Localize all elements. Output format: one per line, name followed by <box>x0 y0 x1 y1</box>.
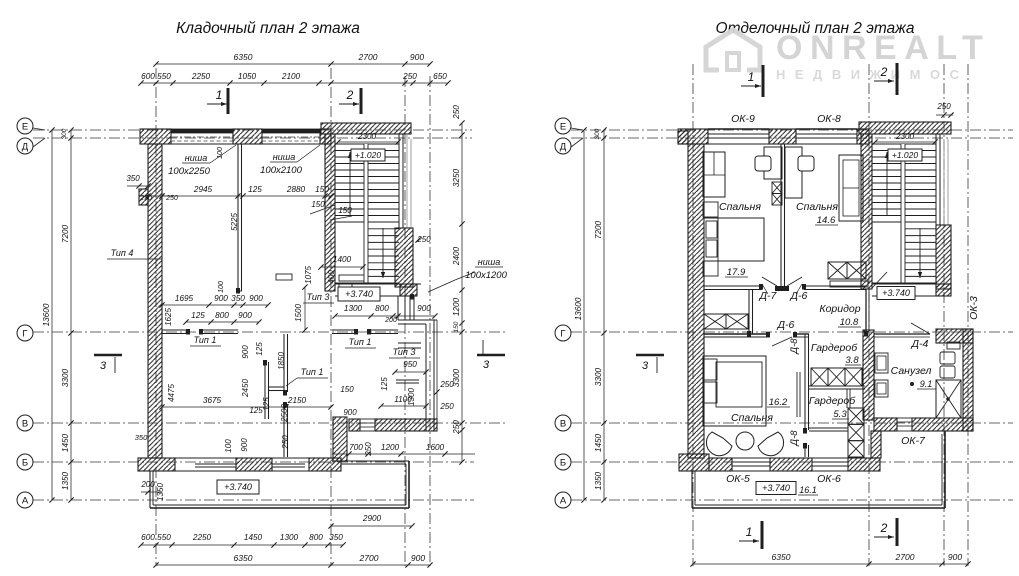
svg-text:2250: 2250 <box>192 533 212 542</box>
svg-text:ОК-3: ОК-3 <box>968 296 980 320</box>
svg-text:ONREALT: ONREALT <box>776 29 990 67</box>
svg-text:2900: 2900 <box>362 514 382 523</box>
svg-text:300: 300 <box>61 128 68 139</box>
svg-text:250: 250 <box>452 105 461 120</box>
svg-text:Гардероб: Гардероб <box>811 342 858 354</box>
svg-text:А: А <box>560 495 567 506</box>
svg-text:3: 3 <box>483 359 490 371</box>
svg-text:900: 900 <box>410 52 424 62</box>
svg-text:2700: 2700 <box>359 553 379 563</box>
svg-text:200: 200 <box>384 317 397 324</box>
svg-text:Д-6: Д-6 <box>777 319 795 331</box>
svg-text:+3.740: +3.740 <box>224 482 252 492</box>
svg-text:ниша: ниша <box>478 257 500 267</box>
svg-text:2700: 2700 <box>358 52 378 62</box>
svg-text:100х2100: 100х2100 <box>260 165 302 176</box>
svg-text:1500: 1500 <box>294 304 303 322</box>
svg-text:2400: 2400 <box>452 246 461 266</box>
svg-text:10.8: 10.8 <box>840 317 859 328</box>
svg-text:4475: 4475 <box>167 384 176 402</box>
svg-text:1050: 1050 <box>238 72 257 81</box>
svg-text:14.6: 14.6 <box>817 215 836 226</box>
svg-text:Е: Е <box>560 121 566 132</box>
svg-text:9.1: 9.1 <box>920 379 933 389</box>
svg-text:6350: 6350 <box>772 552 791 562</box>
svg-text:3: 3 <box>642 360 649 372</box>
svg-text:Д: Д <box>22 141 29 152</box>
svg-text:250: 250 <box>936 102 951 111</box>
svg-text:2150: 2150 <box>287 396 307 405</box>
svg-text:2700: 2700 <box>895 552 915 562</box>
svg-text:100: 100 <box>224 439 233 453</box>
svg-text:5.3: 5.3 <box>833 409 847 420</box>
svg-text:Д-8: Д-8 <box>789 430 800 447</box>
svg-text:16.1: 16.1 <box>799 485 817 495</box>
svg-text:1: 1 <box>748 70 755 84</box>
svg-text:700: 700 <box>349 443 363 452</box>
svg-text:1300: 1300 <box>407 388 416 406</box>
svg-text:В: В <box>22 418 28 429</box>
svg-text:Тип 1: Тип 1 <box>349 337 372 347</box>
svg-text:900: 900 <box>241 345 250 359</box>
svg-text:7200: 7200 <box>61 224 70 243</box>
svg-text:2450: 2450 <box>241 379 250 398</box>
svg-text:Спальня: Спальня <box>719 201 761 213</box>
svg-text:6350: 6350 <box>234 52 253 62</box>
svg-text:Б: Б <box>22 457 28 468</box>
svg-text:550: 550 <box>157 72 171 81</box>
svg-text:900: 900 <box>417 304 431 313</box>
svg-text:Д-7: Д-7 <box>759 290 778 302</box>
svg-text:Коридор: Коридор <box>819 303 860 315</box>
svg-text:800: 800 <box>309 533 323 542</box>
svg-text:250: 250 <box>402 72 417 81</box>
svg-text:ОК-7: ОК-7 <box>901 435 926 447</box>
svg-text:150: 150 <box>311 200 325 209</box>
svg-text:1300: 1300 <box>280 533 299 542</box>
svg-text:800: 800 <box>375 304 389 313</box>
svg-text:Тип 3: Тип 3 <box>307 292 330 302</box>
svg-text:125: 125 <box>380 377 389 391</box>
svg-text:17.9: 17.9 <box>727 267 746 278</box>
svg-text:250: 250 <box>281 435 290 450</box>
svg-text:100: 100 <box>218 281 225 293</box>
svg-text:1450: 1450 <box>594 433 603 452</box>
svg-text:5225: 5225 <box>230 213 239 231</box>
svg-text:ниша: ниша <box>273 152 295 162</box>
svg-text:1350: 1350 <box>61 471 70 490</box>
svg-text:100х1200: 100х1200 <box>465 270 507 281</box>
svg-text:350: 350 <box>135 433 148 442</box>
svg-text:Гардероб: Гардероб <box>809 395 856 407</box>
svg-text:+1.020: +1.020 <box>892 150 919 160</box>
svg-text:Тип 3: Тип 3 <box>393 347 416 357</box>
svg-text:Санузел: Санузел <box>891 365 932 377</box>
svg-text:1300: 1300 <box>344 304 363 313</box>
svg-text:900: 900 <box>238 311 252 320</box>
svg-text:3300: 3300 <box>61 368 70 387</box>
svg-text:950: 950 <box>403 360 417 369</box>
svg-text:250: 250 <box>364 442 373 457</box>
svg-text:1350: 1350 <box>156 483 165 501</box>
svg-text:400: 400 <box>327 270 336 284</box>
svg-text:+3.740: +3.740 <box>882 288 910 298</box>
svg-text:16.2: 16.2 <box>769 397 788 408</box>
svg-text:6350: 6350 <box>234 553 253 563</box>
svg-text:250: 250 <box>452 420 461 435</box>
svg-text:1450: 1450 <box>61 433 70 452</box>
svg-text:250: 250 <box>439 402 454 411</box>
svg-text:Д-8: Д-8 <box>789 338 800 355</box>
svg-text:Тип 4: Тип 4 <box>111 248 134 258</box>
svg-text:900: 900 <box>948 552 962 562</box>
svg-text:3.8: 3.8 <box>845 355 859 366</box>
svg-text:250: 250 <box>439 380 454 389</box>
svg-text:Г: Г <box>22 328 27 339</box>
svg-text:+3.740: +3.740 <box>762 483 790 493</box>
svg-text:125: 125 <box>262 397 271 411</box>
svg-text:1200: 1200 <box>381 443 400 452</box>
svg-text:125: 125 <box>248 185 262 194</box>
svg-text:Д-4: Д-4 <box>911 338 929 350</box>
svg-text:2945: 2945 <box>193 185 213 194</box>
svg-text:3300: 3300 <box>594 367 603 386</box>
svg-text:ОК-9: ОК-9 <box>731 113 755 125</box>
svg-text:Г: Г <box>560 328 565 339</box>
svg-text:ОК-5: ОК-5 <box>726 473 750 485</box>
svg-text:1850: 1850 <box>277 352 286 370</box>
svg-text:Е: Е <box>22 121 28 132</box>
svg-text:900: 900 <box>343 408 357 417</box>
svg-text:3250: 3250 <box>452 168 461 187</box>
svg-text:1075: 1075 <box>304 266 313 284</box>
svg-text:Тип 1: Тип 1 <box>194 335 217 345</box>
svg-text:350: 350 <box>231 294 245 303</box>
svg-text:350: 350 <box>126 174 140 183</box>
svg-text:Д-6: Д-6 <box>790 290 808 302</box>
svg-text:100: 100 <box>217 147 224 159</box>
svg-text:ОК-8: ОК-8 <box>817 113 841 125</box>
svg-text:550: 550 <box>157 533 171 542</box>
svg-text:600: 600 <box>141 533 155 542</box>
svg-text:2100: 2100 <box>281 72 301 81</box>
svg-text:2: 2 <box>346 88 354 102</box>
svg-text:650: 650 <box>433 72 447 81</box>
svg-text:800: 800 <box>215 311 229 320</box>
svg-text:1350: 1350 <box>594 471 603 490</box>
svg-text:2: 2 <box>880 65 888 79</box>
svg-text:2250: 2250 <box>191 72 211 81</box>
svg-text:+1.020: +1.020 <box>355 150 382 160</box>
svg-text:900: 900 <box>214 294 228 303</box>
svg-text:Спальня: Спальня <box>731 412 773 424</box>
svg-text:1: 1 <box>746 525 753 539</box>
svg-text:125: 125 <box>255 342 264 356</box>
svg-text:2880: 2880 <box>286 185 306 194</box>
svg-text:900: 900 <box>240 438 249 452</box>
svg-text:1695: 1695 <box>175 294 194 303</box>
svg-text:1400: 1400 <box>333 255 352 264</box>
svg-text:1450: 1450 <box>244 533 263 542</box>
svg-text:150: 150 <box>315 185 329 194</box>
svg-text:Кладочный план 2 этажа: Кладочный план 2 этажа <box>176 20 360 37</box>
svg-text:ОК-6: ОК-6 <box>817 473 841 485</box>
svg-text:Б: Б <box>560 457 566 468</box>
svg-text:ниша: ниша <box>185 153 207 163</box>
svg-text:150: 150 <box>338 206 352 215</box>
svg-text:900: 900 <box>249 294 263 303</box>
svg-text:600: 600 <box>141 72 155 81</box>
svg-text:1625: 1625 <box>164 308 173 326</box>
svg-text:3675: 3675 <box>203 396 222 405</box>
svg-text:+3.740: +3.740 <box>345 289 373 299</box>
svg-text:2300: 2300 <box>357 132 377 141</box>
svg-text:100х2250: 100х2250 <box>168 166 210 177</box>
svg-text:Д: Д <box>560 141 567 152</box>
svg-text:150: 150 <box>340 385 354 394</box>
svg-text:300: 300 <box>594 128 601 139</box>
svg-text:2: 2 <box>880 521 888 535</box>
svg-text:350: 350 <box>329 533 343 542</box>
svg-text:13600: 13600 <box>42 303 51 326</box>
svg-text:7200: 7200 <box>594 220 603 239</box>
svg-text:1: 1 <box>216 88 223 102</box>
svg-text:1600: 1600 <box>426 443 445 452</box>
svg-text:2300: 2300 <box>895 132 915 141</box>
svg-text:А: А <box>22 495 29 506</box>
svg-text:13600: 13600 <box>574 297 583 320</box>
svg-text:НЕДВИЖИМОС: НЕДВИЖИМОС <box>776 67 968 82</box>
svg-text:150: 150 <box>453 321 460 332</box>
svg-text:3: 3 <box>100 360 107 372</box>
svg-text:900: 900 <box>411 553 425 563</box>
svg-text:1200: 1200 <box>452 297 461 316</box>
svg-text:В: В <box>560 418 566 429</box>
svg-text:Спальня: Спальня <box>796 201 838 213</box>
svg-text:Тип 1: Тип 1 <box>301 367 324 377</box>
svg-text:125: 125 <box>191 311 205 320</box>
